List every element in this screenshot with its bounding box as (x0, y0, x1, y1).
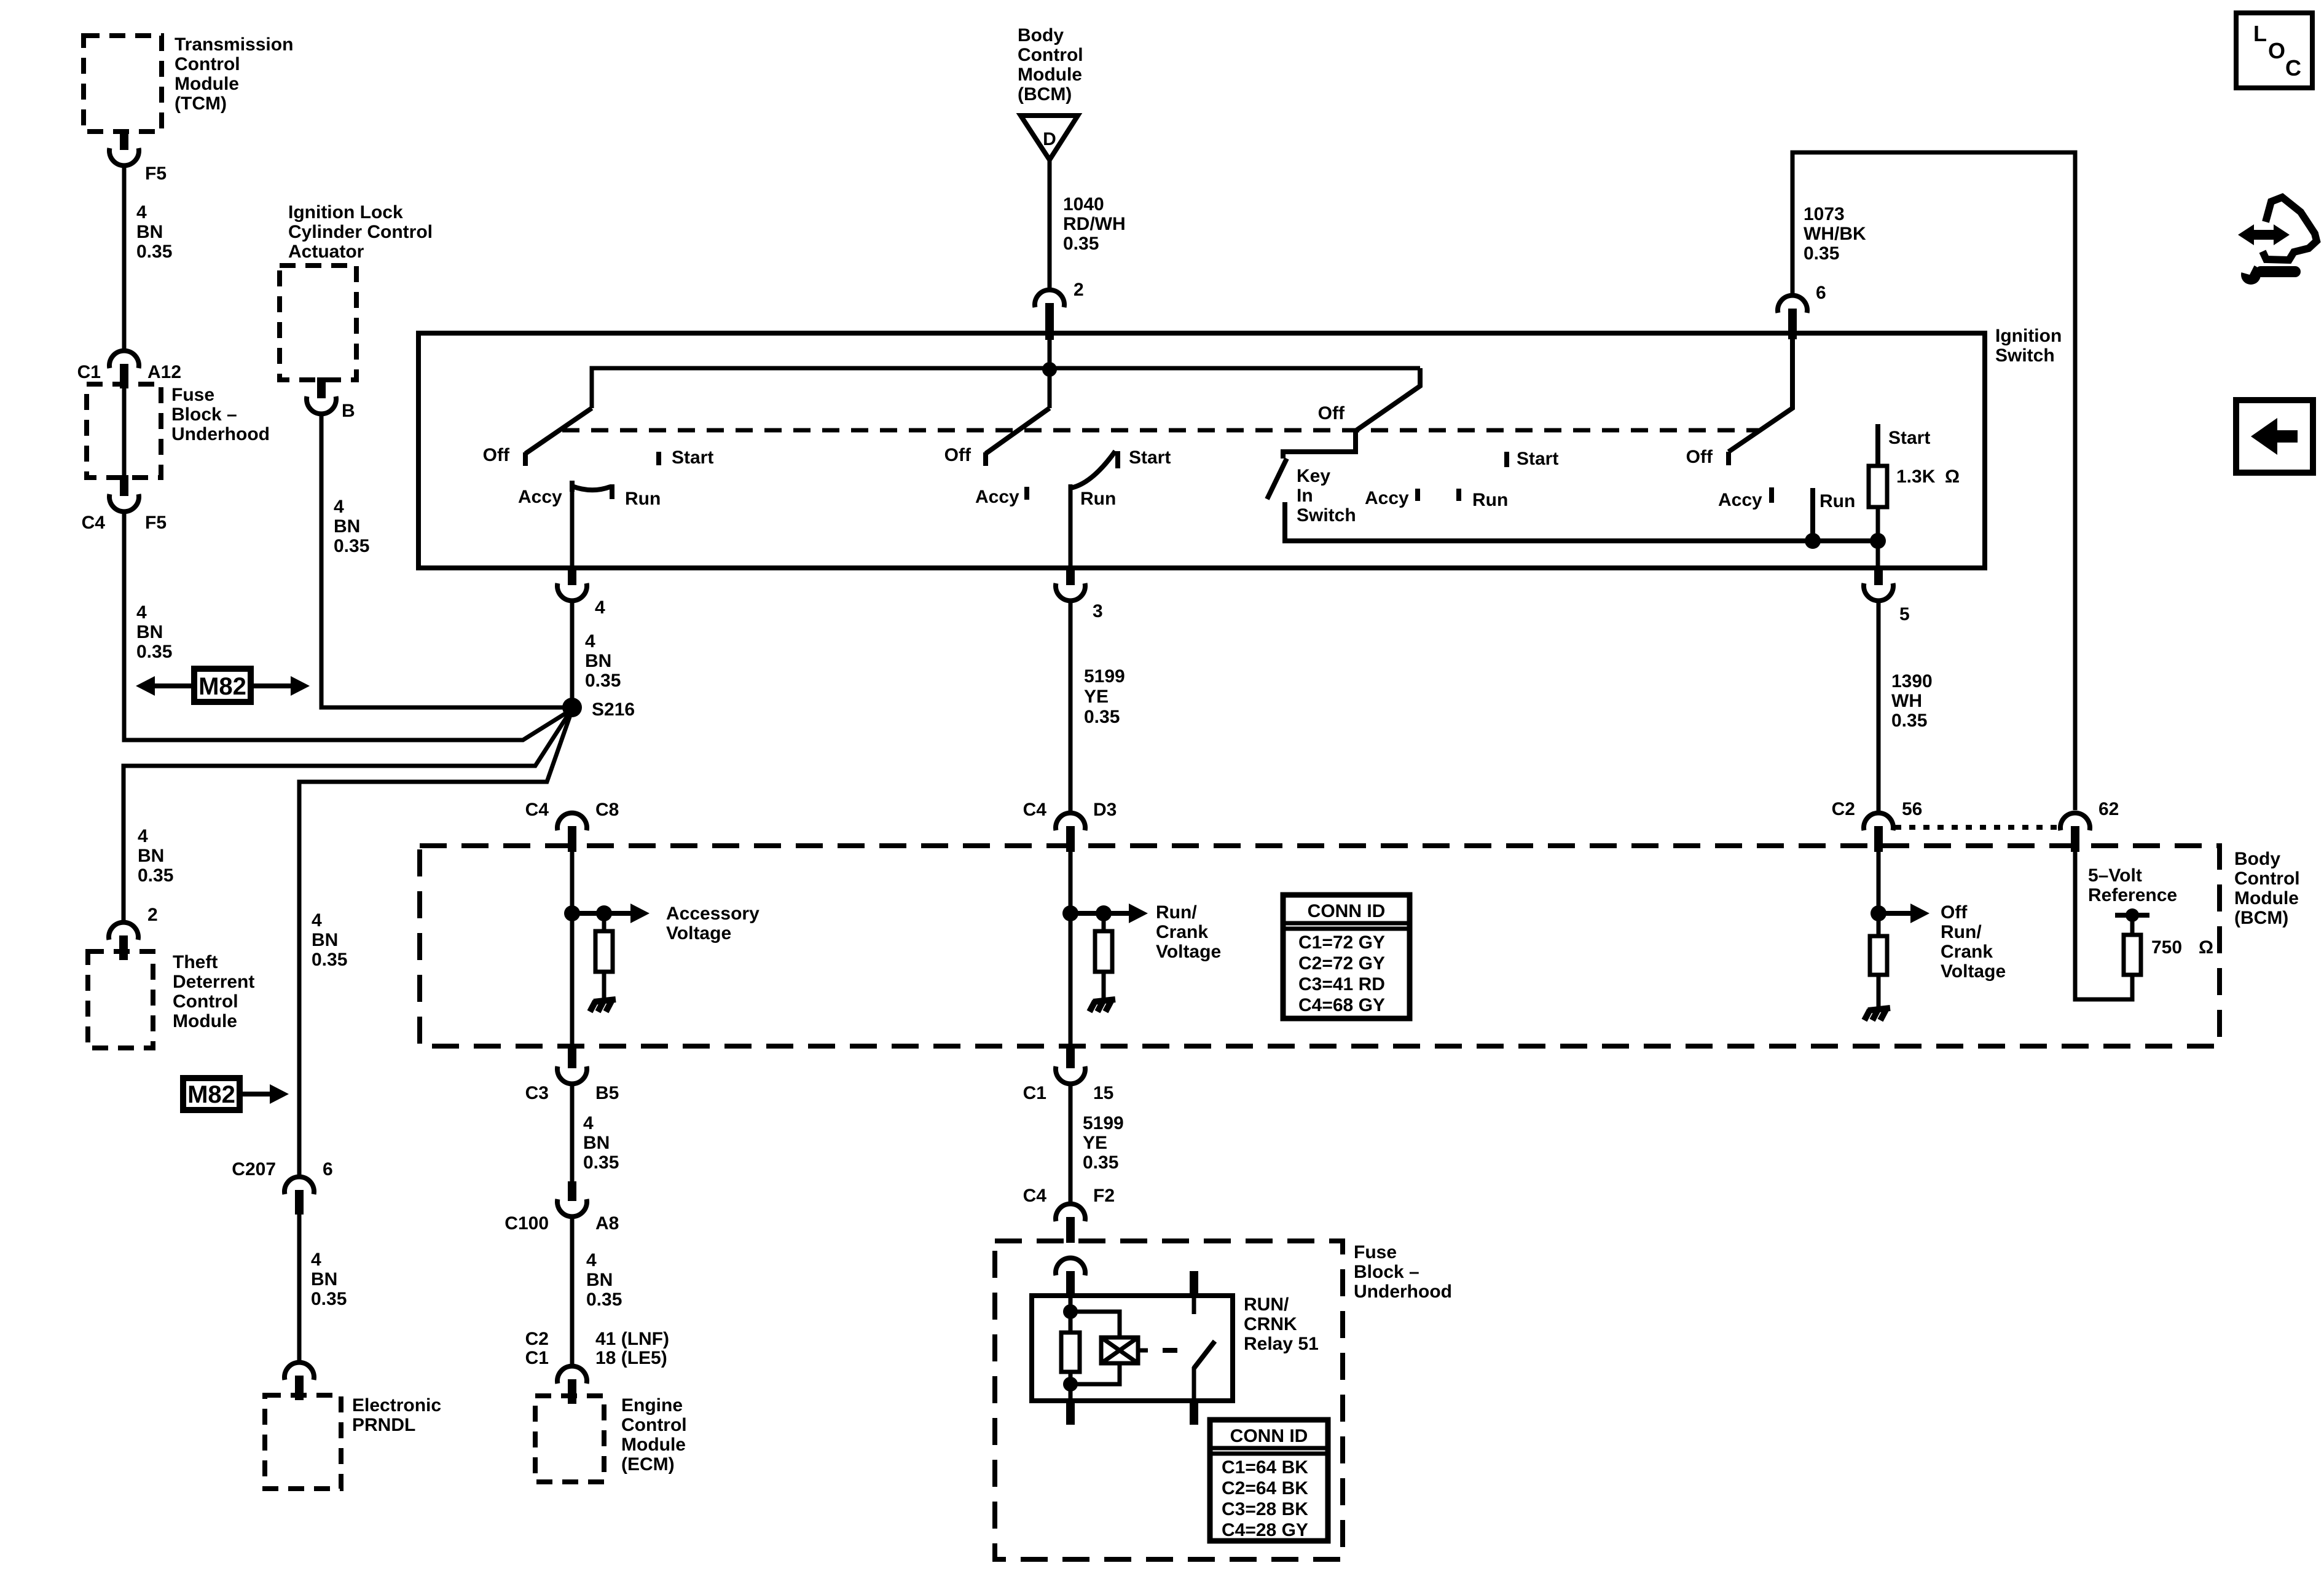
resistor (off-run-crank pull-down) (1870, 936, 1887, 975)
connector C1/15 below BCM (1066, 1046, 1075, 1068)
svg-text:Start: Start (1129, 447, 1171, 468)
connector 6 into ignition switch (1778, 296, 1807, 313)
ground (run/crank) (1093, 999, 1115, 1002)
wire terminal 4 to S216 (570, 601, 575, 707)
svg-text:Control: Control (175, 54, 240, 74)
svg-text:18 (LE5): 18 (LE5) (595, 1348, 667, 1368)
wire D3 inside BCM (1069, 848, 1073, 1046)
svg-text:62: 62 (2098, 799, 2119, 819)
wire section2 to terminal 3 (1069, 484, 1073, 568)
wire TCM F5 to fuse block C1 (122, 166, 127, 350)
junction dot accessory resistor tap (596, 905, 612, 921)
svg-text:L: L (2253, 21, 2267, 46)
resistor 750 ohm (2124, 935, 2141, 975)
svg-text:4: 4 (595, 597, 605, 618)
svg-text:C4: C4 (1023, 800, 1047, 820)
svg-text:M82: M82 (187, 1081, 235, 1108)
module box: Transmission Control Module (TCM) (84, 36, 162, 132)
connector C4/F5 below fuse block (120, 475, 128, 496)
icon: component view (arrow + part + wrench) (2263, 197, 2317, 260)
junction dot run/crank resistor tap (1096, 905, 1112, 921)
svg-text:5199: 5199 (1084, 666, 1125, 687)
connector into electronic PRNDL (285, 1363, 314, 1380)
contact tick Run (section 4, drops to bus) (1810, 488, 1815, 541)
svg-text:Off: Off (1686, 447, 1713, 467)
svg-text:C3: C3 (525, 1083, 549, 1103)
svg-text:F2: F2 (1093, 1186, 1115, 1206)
junction dot terminal2/bus (1042, 362, 1057, 377)
wire terminal 5 to BCM 56 (1877, 601, 1881, 813)
svg-text:Module: Module (1018, 65, 1082, 85)
svg-text:C1=64 BK: C1=64 BK (1222, 1457, 1308, 1478)
svg-text:Accy: Accy (1365, 488, 1409, 508)
svg-text:4: 4 (138, 826, 148, 846)
key-in switch blade (1267, 459, 1287, 499)
relay coil exit wire (1069, 1384, 1073, 1401)
svg-text:Control: Control (2234, 868, 2300, 889)
svg-text:Module: Module (173, 1011, 237, 1031)
junction dot run/bus (1805, 533, 1821, 549)
svg-text:(BCM): (BCM) (1018, 84, 1072, 104)
svg-text:41 (LNF): 41 (LNF) (595, 1329, 669, 1349)
relay coil branch wires (1070, 1312, 1120, 1337)
connector C4/C8 into BCM (557, 813, 587, 830)
svg-text:4: 4 (136, 602, 147, 623)
svg-text:Accessory: Accessory (666, 904, 760, 924)
connector terminal 4 (568, 565, 576, 585)
svg-text:0.35: 0.35 (1891, 711, 1927, 731)
relay contact blade (1194, 1341, 1215, 1368)
svg-text:CRNK: CRNK (1244, 1314, 1297, 1334)
svg-text:C2=64 BK: C2=64 BK (1222, 1478, 1308, 1498)
relay coil to contact dashed link (1138, 1349, 1148, 1353)
svg-text:C3=28 BK: C3=28 BK (1222, 1499, 1308, 1519)
internal node bar (5V ref) (2115, 913, 2149, 918)
svg-text:F5: F5 (145, 513, 167, 533)
svg-text:C3=41 RD: C3=41 RD (1298, 974, 1385, 994)
svg-text:4: 4 (334, 497, 344, 517)
resistor (run/crank pull-down) (1102, 913, 1106, 931)
svg-text:4: 4 (586, 1250, 597, 1270)
svg-text:Engine: Engine (621, 1395, 683, 1416)
svg-text:B5: B5 (595, 1083, 619, 1103)
svg-text:Accy: Accy (975, 487, 1019, 507)
svg-text:Switch: Switch (1297, 505, 1356, 526)
svg-text:Run/: Run/ (1156, 902, 1197, 923)
module box: Electronic PRNDL (265, 1395, 341, 1489)
svg-text:Key: Key (1297, 466, 1330, 486)
svg-text:15: 15 (1093, 1083, 1113, 1103)
connector F5 below TCM (120, 129, 128, 150)
svg-text:C207: C207 (232, 1159, 276, 1179)
wire 1.3K to bus (1876, 507, 1880, 541)
wire inside fuse block (122, 388, 127, 475)
svg-text:(ECM): (ECM) (621, 1454, 675, 1475)
module box: Engine Control Module (ECM) (535, 1396, 604, 1482)
dotted link between 56 and 62 (1895, 825, 2059, 830)
relay pin bottom (coil) (1066, 1401, 1075, 1425)
svg-text:C1: C1 (525, 1348, 549, 1368)
svg-text:Fuse: Fuse (1354, 1242, 1397, 1262)
switch blade section 2 (986, 408, 1050, 454)
contact tick Start (section 1) (656, 452, 661, 465)
splice symbol M82 (double arrow) (153, 683, 203, 688)
relay contact pin top (1190, 1271, 1198, 1296)
svg-text:0.35: 0.35 (1084, 707, 1120, 727)
svg-text:Off: Off (483, 445, 510, 465)
wire C207 to PRNDL (297, 1215, 302, 1362)
svg-text:Actuator: Actuator (288, 242, 364, 262)
wire 62 inside BCM to 750 ohm (2075, 848, 2132, 999)
contact tick Run (section 3) (1456, 489, 1461, 501)
svg-text:Ω: Ω (2199, 937, 2213, 958)
svg-text:Underhood: Underhood (171, 424, 270, 444)
svg-text:BN: BN (312, 930, 338, 950)
wire A8 to ECM (570, 1217, 575, 1366)
svg-text:C: C (2285, 55, 2301, 81)
svg-text:Run: Run (1472, 490, 1508, 510)
svg-text:0.35: 0.35 (311, 1289, 347, 1309)
svg-text:Relay 51: Relay 51 (1244, 1334, 1319, 1354)
wire S216 to theft deterrent module (124, 709, 572, 921)
wire B5 to C100 (570, 1084, 575, 1181)
connector 62 into BCM (2060, 813, 2090, 830)
junction dot 1.3K/bus (1870, 533, 1886, 549)
svg-text:4: 4 (136, 202, 147, 222)
svg-text:0.35: 0.35 (136, 642, 172, 662)
svg-text:0.35: 0.35 (1063, 234, 1099, 254)
relay pin bottom (contact) (1190, 1401, 1198, 1425)
svg-text:0.35: 0.35 (138, 865, 173, 886)
svg-text:Run/: Run/ (1941, 922, 1982, 942)
icon: LOC box (2236, 13, 2312, 88)
svg-text:A12: A12 (147, 362, 181, 382)
connector C3/B5 below BCM (568, 1046, 576, 1068)
svg-text:Block –: Block – (171, 404, 237, 425)
contact tick Off (section 1) (523, 452, 528, 466)
svg-text:C8: C8 (595, 800, 619, 820)
wire 1040 from triangle to ignition switch (1048, 160, 1052, 289)
svg-text:0.35: 0.35 (586, 1290, 622, 1310)
svg-text:Control: Control (1018, 45, 1083, 65)
svg-text:Start: Start (1517, 449, 1558, 469)
svg-text:S216: S216 (592, 699, 635, 720)
svg-text:6: 6 (1816, 283, 1826, 303)
table CONN ID (BCM) (1283, 895, 1410, 1018)
svg-text:Ω: Ω (1945, 467, 1960, 487)
svg-text:CONN ID: CONN ID (1230, 1426, 1308, 1446)
switch blade section 3 (key-in) (1283, 368, 1420, 459)
svg-text:3: 3 (1093, 601, 1103, 621)
wire 1073 riser (tall loop to BCM 62) (1792, 152, 2075, 810)
svg-text:Start: Start (672, 447, 713, 468)
power triangle D (BCM feed) (1021, 116, 1078, 160)
svg-text:C1=72 GY: C1=72 GY (1298, 932, 1385, 953)
relay coil feed wire (1069, 1296, 1073, 1312)
relay coil (X box) (1101, 1337, 1138, 1363)
svg-text:4: 4 (585, 631, 595, 652)
svg-text:Voltage: Voltage (666, 923, 731, 943)
module box: Ignition Lock Cylinder Control Actuator (280, 266, 356, 380)
svg-text:2: 2 (147, 905, 158, 925)
relay resistor branch (1069, 1312, 1073, 1334)
switch blade section 1 (525, 408, 592, 454)
connector 2 into theft deterrent module (109, 923, 138, 940)
svg-text:5–Volt: 5–Volt (2088, 865, 2142, 886)
svg-text:1073: 1073 (1804, 204, 1845, 224)
svg-text:Module: Module (2234, 888, 2299, 908)
contact tick Off (section 2) (983, 452, 988, 466)
connector C207/6 (285, 1177, 314, 1194)
icon: back-arrow box (2236, 400, 2313, 473)
svg-text:BN: BN (136, 222, 163, 242)
svg-text:WH: WH (1891, 691, 1922, 711)
svg-text:C2=72 GY: C2=72 GY (1298, 953, 1385, 974)
svg-text:O: O (2268, 38, 2285, 63)
connector into ECM (557, 1366, 587, 1384)
svg-text:0.35: 0.35 (312, 950, 347, 970)
connector C2/56 into BCM (1864, 813, 1893, 830)
relay contact lower wire (1192, 1367, 1196, 1401)
wire actuator B to splice S216 (321, 414, 572, 707)
wire section1 to terminal 4 (570, 486, 575, 568)
svg-text:0.35: 0.35 (136, 242, 172, 262)
svg-text:Underhood: Underhood (1354, 1282, 1452, 1302)
svg-text:Switch: Switch (1995, 345, 2055, 366)
svg-text:Crank: Crank (1156, 922, 1208, 942)
connector C4/F2 into fuse block (1056, 1204, 1085, 1221)
svg-text:BN: BN (334, 516, 360, 537)
wire bus to terminal 5 (1876, 541, 1880, 568)
svg-text:56: 56 (1902, 799, 1922, 819)
svg-text:1040: 1040 (1063, 194, 1104, 215)
svg-text:Off: Off (1941, 902, 1968, 923)
contact tick Accy (section 2) (1024, 487, 1029, 500)
resistor (accessory pull-down) (602, 913, 607, 931)
svg-text:6: 6 (323, 1159, 333, 1179)
ignition switch box (418, 333, 1985, 568)
contact tick Accy (section 3) (1415, 489, 1420, 501)
svg-text:C4=68 GY: C4=68 GY (1298, 995, 1385, 1015)
svg-text:4: 4 (311, 1250, 321, 1270)
svg-text:2: 2 (1074, 280, 1084, 300)
svg-text:0.35: 0.35 (583, 1152, 619, 1173)
wire terminal 3 to BCM D3 (1069, 601, 1073, 813)
svg-text:Module: Module (175, 74, 239, 94)
signal arrow Off Run/Crank Voltage (1878, 911, 1912, 916)
resistor 1.3K (1869, 466, 1887, 507)
svg-text:C2: C2 (1832, 799, 1855, 819)
wire S216 to PRNDL riser (299, 710, 572, 1176)
svg-text:CONN ID: CONN ID (1308, 901, 1386, 921)
svg-text:1390: 1390 (1891, 671, 1933, 691)
svg-text:WH/BK: WH/BK (1804, 224, 1866, 244)
connector B below actuator (317, 377, 326, 398)
svg-text:RD/WH: RD/WH (1063, 214, 1126, 234)
ground (off-run-crank) (1868, 1008, 1890, 1010)
svg-text:Module: Module (621, 1435, 686, 1455)
svg-text:C1: C1 (77, 362, 101, 382)
svg-text:Fuse: Fuse (171, 385, 214, 405)
svg-text:Cylinder Control: Cylinder Control (288, 222, 433, 242)
svg-text:0.35: 0.35 (334, 536, 369, 556)
svg-text:Electronic: Electronic (352, 1395, 441, 1416)
svg-text:750: 750 (2151, 937, 2182, 958)
switch blade section 4 (1729, 336, 1792, 452)
junction dot run/crank wire (1062, 905, 1078, 921)
rotor link Accy-Run (section 1) (572, 486, 610, 490)
contact tick Off (section 4) (1726, 452, 1731, 465)
svg-text:Control: Control (621, 1415, 687, 1435)
svg-text:C4: C4 (1023, 1186, 1047, 1206)
svg-text:BN: BN (585, 651, 611, 671)
svg-text:BN: BN (136, 622, 163, 642)
svg-text:C4: C4 (82, 513, 106, 533)
wire 56 inside BCM (1877, 848, 1881, 936)
svg-text:BN: BN (583, 1133, 610, 1153)
svg-text:PRNDL: PRNDL (352, 1415, 415, 1435)
svg-text:1.3K: 1.3K (1896, 467, 1936, 487)
junction dot off-run-crank (1871, 905, 1886, 921)
junction dot relay top (1063, 1304, 1078, 1319)
svg-text:5: 5 (1899, 604, 1910, 624)
svg-text:D: D (1043, 129, 1056, 149)
svg-text:Transmission: Transmission (175, 34, 293, 55)
svg-text:(BCM): (BCM) (2234, 908, 2288, 928)
svg-text:BN: BN (586, 1270, 613, 1290)
connector terminal 5 (1874, 565, 1883, 585)
svg-text:0.35: 0.35 (585, 671, 621, 691)
splice S216 (562, 698, 582, 717)
connector relay socket F2 (1056, 1258, 1085, 1275)
svg-text:Theft: Theft (173, 952, 218, 972)
svg-text:Ignition Lock: Ignition Lock (288, 202, 403, 222)
svg-text:D3: D3 (1093, 800, 1117, 820)
contact tick Start (section 3) (1504, 452, 1509, 467)
wire 15 to fuse block F2 (1069, 1084, 1073, 1203)
svg-text:Voltage: Voltage (1156, 942, 1221, 962)
svg-text:M82: M82 (198, 673, 246, 700)
svg-text:Ignition: Ignition (1995, 326, 2062, 346)
svg-text:Reference: Reference (2088, 885, 2177, 905)
svg-text:Start: Start (1888, 428, 1930, 448)
fuse block underhood dashed box (bottom) (995, 1241, 1343, 1559)
svg-text:Accy: Accy (1718, 490, 1762, 510)
svg-text:Run: Run (1820, 491, 1855, 511)
svg-text:BN: BN (311, 1269, 337, 1290)
svg-text:(TCM): (TCM) (175, 93, 227, 114)
contact tick Accy (section 1) (570, 481, 575, 492)
relay box RUN/CRNK Relay 51 (1032, 1296, 1233, 1401)
svg-text:C4: C4 (525, 800, 549, 820)
signal arrow Accessory Voltage (572, 911, 632, 916)
junction dot relay bottom (1063, 1377, 1078, 1392)
contact tick Run (section 1) (610, 484, 614, 499)
svg-text:YE: YE (1084, 687, 1109, 707)
contact Start wire (section 4) (1875, 424, 1880, 467)
svg-text:RUN/: RUN/ (1244, 1294, 1289, 1315)
svg-text:C4=28 GY: C4=28 GY (1222, 1520, 1308, 1540)
svg-text:C2: C2 (525, 1329, 549, 1349)
module box: Theft Deterrent Control Module (88, 951, 153, 1048)
wire C8 inside BCM (570, 848, 575, 1046)
splice symbol M82 (arrow into PRNDL wire) (183, 1078, 240, 1110)
svg-text:Accy: Accy (518, 487, 562, 507)
svg-text:4: 4 (312, 910, 322, 931)
contact tick Start (section 2) (1115, 451, 1120, 468)
svg-text:4: 4 (583, 1113, 594, 1133)
key-in switch fixed contact (1285, 502, 1878, 541)
signal arrow Run/Crank Voltage (1070, 911, 1131, 916)
svg-text:Off: Off (1318, 403, 1345, 423)
svg-text:5199: 5199 (1083, 1113, 1124, 1133)
svg-text:Deterrent: Deterrent (173, 972, 254, 992)
fuse block underhood box (top-left) (87, 384, 161, 478)
svg-text:F5: F5 (145, 163, 167, 184)
svg-text:Run: Run (625, 489, 661, 509)
svg-text:C1: C1 (1023, 1083, 1046, 1103)
connector terminal 3 (1066, 565, 1075, 585)
contact tick Accy (section 4) (1769, 487, 1774, 503)
svg-text:In: In (1297, 486, 1313, 506)
table CONN ID (fuse block) (1210, 1420, 1328, 1541)
svg-text:0.35: 0.35 (1804, 243, 1839, 264)
svg-text:Block –: Block – (1354, 1262, 1419, 1282)
svg-text:B: B (342, 401, 355, 421)
connector C1/A12 into fuse block (109, 351, 139, 368)
switch position dashed line (562, 428, 1759, 433)
svg-text:0.35: 0.35 (1083, 1152, 1118, 1173)
svg-text:Crank: Crank (1941, 942, 1993, 962)
svg-text:C100: C100 (504, 1213, 549, 1234)
body control module dashed box (420, 846, 2220, 1046)
ground (accessory) (594, 999, 616, 1002)
connector C100/A8 (568, 1181, 576, 1201)
wire terminal 2 to blade pivot (1048, 336, 1052, 408)
svg-text:Voltage: Voltage (1941, 961, 2006, 982)
wire node bar to 750 ohm (2130, 915, 2135, 936)
connector C4/D3 into BCM (1056, 813, 1085, 830)
svg-text:Body: Body (2234, 849, 2280, 869)
switch common bus (internal) (592, 368, 1420, 408)
svg-text:Control: Control (173, 991, 238, 1012)
rotor link Run-Start (section 2) (1070, 451, 1115, 488)
junction dot accessory wire (564, 905, 580, 921)
svg-text:BN: BN (138, 846, 164, 866)
svg-text:A8: A8 (595, 1213, 619, 1234)
svg-text:Body: Body (1018, 25, 1064, 45)
connector 2 into ignition switch (1035, 290, 1064, 307)
svg-text:Off: Off (944, 445, 972, 465)
svg-text:YE: YE (1083, 1133, 1107, 1153)
svg-text:Run: Run (1080, 489, 1116, 509)
wire fuse block to splice S216 (left riser) (124, 512, 572, 740)
